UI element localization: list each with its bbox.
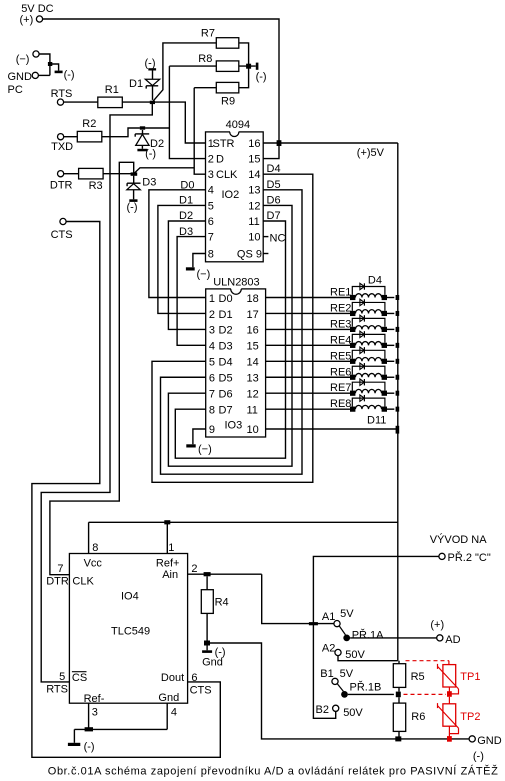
wire net D4: 4094 pin14 wrap to ULN pin5	[152, 174, 313, 482]
4094 pin10 NC stub	[263, 236, 268, 238]
terminal GND	[469, 736, 475, 742]
wire net D7: 4094 pin11 wrap to ULN pin8	[175, 221, 285, 458]
svg-text:Gnd: Gnd	[158, 692, 179, 704]
svg-text:R4: R4	[215, 597, 229, 609]
wire net D2: 4094 pin6 to ULN pin3	[168, 221, 205, 329]
svg-text:PŘ.1A: PŘ.1A	[352, 629, 384, 642]
svg-text:Ref+: Ref+	[156, 557, 180, 569]
TLC549 pin8 Vcc stub	[88, 522, 90, 553]
flyback diode D8	[352, 350, 385, 358]
svg-text:D3: D3	[179, 226, 193, 238]
svg-text:AD: AD	[445, 634, 460, 646]
svg-text:(-): (-)	[84, 741, 95, 753]
svg-text:D: D	[216, 154, 224, 166]
svg-text:IO2: IO2	[222, 189, 240, 201]
svg-text:Dout: Dout	[161, 672, 184, 684]
diode D1 (zener)	[152, 86, 154, 100]
svg-text:(−): (−)	[197, 269, 211, 281]
ground Gnd at R4	[206, 646, 208, 651]
wire pin3-pin4 ground link	[74, 728, 167, 730]
node R7/R8/R9 (-) junction	[246, 64, 251, 69]
svg-text:1: 1	[168, 542, 174, 554]
node RTS/D1 junction	[150, 101, 155, 104]
node A1 junction	[309, 622, 318, 625]
terminal (-) PC	[33, 51, 39, 57]
wire 5VDC to 4094 pin16 junction	[43, 19, 279, 141]
svg-text:D1: D1	[219, 309, 233, 321]
svg-text:RE1: RE1	[330, 287, 351, 299]
4094 pin8 ground wire	[193, 254, 206, 268]
wire R9 left	[194, 87, 216, 89]
svg-text:DTR: DTR	[50, 180, 73, 192]
wire R2 jog up to D2 node	[102, 128, 140, 137]
svg-text:R5: R5	[411, 671, 425, 683]
svg-text:18: 18	[247, 293, 259, 305]
svg-text:CS: CS	[72, 672, 87, 684]
node Ain/R4 junction	[204, 572, 211, 576]
svg-text:4094: 4094	[226, 119, 250, 131]
svg-text:(+)5V: (+)5V	[357, 147, 385, 159]
wire R8 vertical to 4094 pin2	[169, 66, 205, 159]
svg-text:B2: B2	[316, 704, 329, 716]
wire A2 to R5 top	[338, 656, 398, 661]
wire node diagonal to R7	[152, 43, 216, 102]
svg-text:(-): (-)	[127, 202, 138, 214]
node 4094 pin16 5V junction	[277, 140, 282, 146]
svg-text:RE2: RE2	[330, 302, 351, 314]
node TP1/TP2 red junction	[447, 691, 452, 697]
svg-text:TLC549: TLC549	[111, 625, 150, 637]
svg-text:5V: 5V	[340, 608, 354, 620]
node R5 top	[398, 661, 400, 664]
wire 4094 pin15 up to pin16 node	[263, 143, 279, 159]
switch contact B2	[333, 705, 339, 711]
svg-text:Ain: Ain	[162, 569, 178, 581]
diode D2 (zener)	[142, 130, 144, 134]
svg-text:5V: 5V	[340, 668, 354, 680]
svg-text:15: 15	[247, 341, 259, 353]
svg-text:1: 1	[209, 293, 215, 305]
wire ULN pin 18 to relay RE1	[266, 297, 350, 299]
svg-text:RE4: RE4	[330, 334, 351, 346]
wire junction to A1 contact	[317, 623, 333, 625]
svg-text:2: 2	[209, 309, 215, 321]
svg-text:50V: 50V	[345, 649, 365, 661]
terminal +5V DC	[36, 16, 42, 22]
svg-text:TP1: TP1	[460, 671, 480, 683]
svg-text:5: 5	[59, 671, 65, 683]
switch contact A2	[335, 649, 341, 655]
wire Ref+ net to +5V rail	[89, 521, 398, 523]
wire TXD to R2	[64, 136, 78, 138]
svg-text:(+): (+)	[20, 14, 34, 26]
flyback diode D10	[352, 382, 385, 390]
wire node to 4094 pin1	[152, 102, 205, 143]
node RE1 on +5V rail	[396, 295, 400, 300]
flyback diode D7	[352, 334, 385, 342]
TLC549 pin1 Ref+ stub	[166, 522, 168, 553]
svg-text:RTS: RTS	[51, 88, 73, 100]
svg-text:B1: B1	[320, 668, 333, 680]
wire R7 right to (-) node	[239, 43, 249, 66]
svg-text:D5: D5	[219, 373, 233, 385]
wire D3 node up-over to DTR vertical	[50, 162, 134, 574]
svg-text:D11: D11	[367, 414, 386, 426]
svg-text:2: 2	[208, 154, 214, 166]
svg-text:5: 5	[209, 357, 215, 369]
svg-text:3: 3	[92, 707, 98, 719]
terminal TXD	[58, 134, 64, 140]
svg-text:GND: GND	[8, 71, 33, 83]
svg-text:8: 8	[92, 542, 98, 554]
svg-text:14: 14	[248, 169, 260, 181]
wire ULN pin 11 to relay RE8	[266, 408, 350, 410]
resistor R9	[216, 82, 239, 93]
svg-text:6: 6	[191, 672, 197, 684]
wire R8 left	[169, 65, 216, 67]
svg-text:RE7: RE7	[330, 382, 351, 394]
svg-text:D0: D0	[219, 293, 233, 305]
red dashed wire to TP1 top	[406, 660, 450, 662]
resistor R7	[216, 38, 239, 49]
svg-text:VÝVOD NA: VÝVOD NA	[430, 533, 488, 546]
IC U3 ULN2803 driver IO3	[206, 289, 266, 437]
svg-text:Obr.č.01A schéma zapojení přev: Obr.č.01A schéma zapojení převodníku A/D…	[48, 764, 498, 777]
ground (-) at TLC549	[73, 729, 75, 742]
svg-text:9: 9	[209, 424, 215, 436]
node RE3 on +5V rail	[396, 327, 400, 332]
switch contact B1	[332, 678, 338, 684]
svg-text:CLK: CLK	[216, 169, 238, 181]
svg-text:ULN2803: ULN2803	[213, 277, 259, 289]
svg-text:DTR: DTR	[46, 576, 69, 588]
svg-text:GND: GND	[477, 735, 502, 747]
svg-text:(−): (−)	[16, 54, 30, 66]
wire R3 to D3 node	[103, 173, 134, 175]
resistor R5	[393, 664, 405, 688]
resistor R1	[98, 97, 123, 108]
svg-text:D3: D3	[219, 341, 233, 353]
svg-text:(-): (-)	[473, 750, 484, 762]
svg-text:R8: R8	[198, 53, 212, 65]
wire RTS to R1	[64, 101, 98, 103]
svg-text:Ref-: Ref-	[84, 693, 105, 705]
red wire TP2 bottom	[448, 726, 450, 739]
op: IC U2 4094 shift register IO2	[206, 132, 264, 262]
resistor R4	[206, 576, 208, 589]
flyback diode D6	[352, 318, 385, 326]
wire VYVOD NA PR.2 C	[313, 556, 439, 718]
svg-text:PŘ.1B: PŘ.1B	[350, 681, 382, 694]
diode D3 (zener)	[133, 176, 135, 184]
node DTR/D3 junction	[131, 172, 138, 175]
svg-text:RE8: RE8	[330, 398, 351, 410]
wire net D1: 4094 pin5 to ULN pin2	[158, 205, 206, 313]
svg-text:(-): (-)	[145, 148, 156, 160]
svg-text:D4: D4	[368, 274, 382, 286]
wire pole A to AD terminal	[350, 637, 437, 639]
resistor R3	[79, 168, 104, 179]
flyback diode D11	[352, 398, 385, 406]
svg-text:3: 3	[208, 169, 214, 181]
wire CTS wrap to TLC549 pin6 Dout	[32, 222, 220, 758]
wire net D0: 4094 pin4 to ULN pin1	[149, 190, 206, 298]
svg-text:(−): (−)	[198, 443, 212, 455]
svg-text:10: 10	[248, 232, 260, 244]
svg-text:D1: D1	[179, 195, 193, 207]
resistor R2	[77, 131, 102, 142]
svg-text:R7: R7	[201, 27, 215, 39]
svg-text:4: 4	[208, 185, 214, 197]
svg-text:CLK: CLK	[72, 576, 94, 588]
svg-text:14: 14	[247, 357, 259, 369]
TLC549 pin2 Ain wire	[188, 573, 262, 575]
svg-text:IO4: IO4	[121, 591, 139, 603]
wire 4094 pin16 to +5V rail	[263, 142, 398, 144]
terminal AD	[437, 635, 443, 641]
svg-text:D2: D2	[179, 210, 193, 222]
wire ULN pin 14 to relay RE5	[266, 360, 350, 362]
svg-text:(-): (-)	[256, 71, 267, 83]
svg-text:7: 7	[208, 232, 214, 244]
svg-text:Vcc: Vcc	[84, 557, 103, 569]
svg-text:9: 9	[256, 248, 262, 260]
svg-text:D5: D5	[267, 179, 281, 191]
terminal DTR	[58, 171, 64, 177]
ground (-) at 4094 pin8	[186, 267, 195, 270]
svg-text:D6: D6	[219, 389, 233, 401]
node pin10 on rail	[396, 426, 400, 434]
svg-text:R2: R2	[82, 118, 96, 130]
svg-text:D7: D7	[267, 210, 281, 222]
svg-text:PC: PC	[8, 84, 23, 96]
svg-text:7: 7	[209, 389, 215, 401]
svg-text:D4: D4	[219, 357, 233, 369]
svg-text:12: 12	[247, 389, 259, 401]
svg-text:D2: D2	[219, 325, 233, 337]
svg-text:R3: R3	[89, 180, 103, 192]
svg-text:PŘ.2 "C": PŘ.2 "C"	[448, 551, 491, 564]
svg-text:3: 3	[209, 325, 215, 337]
thermistor TP1	[443, 665, 456, 687]
svg-text:STR: STR	[213, 138, 235, 150]
thermistor TP2	[448, 697, 450, 704]
svg-text:D6: D6	[267, 194, 281, 206]
terminal CTS	[60, 218, 66, 224]
wire D3 node diagonal to pin3 via R9 vertical	[134, 168, 195, 174]
wire net D6: 4094 pin12 wrap to ULN pin7	[168, 205, 292, 466]
wire R4 ground to GND line	[210, 643, 469, 739]
svg-text:D1: D1	[129, 78, 143, 90]
wire R9 right up to node	[239, 66, 249, 88]
wire DTR to R3	[64, 173, 79, 175]
node TLC ground junction	[85, 727, 93, 731]
svg-text:15: 15	[248, 154, 260, 166]
svg-text:CTS: CTS	[51, 229, 73, 241]
wire net D3: 4094 pin7 to ULN pin4	[177, 237, 206, 346]
svg-text:A1: A1	[322, 611, 335, 623]
svg-text:TXD: TXD	[51, 141, 73, 153]
svg-text:2: 2	[191, 563, 197, 575]
terminal RTS	[57, 99, 63, 105]
svg-text:R9: R9	[221, 96, 235, 108]
svg-text:NC: NC	[270, 233, 286, 245]
svg-text:8: 8	[209, 404, 215, 416]
wire Ain to A1 junction	[262, 574, 314, 623]
flyback diode D5	[352, 302, 385, 310]
node RE5 on +5V rail	[396, 359, 400, 364]
wire R9 vertical to 4094 pin3	[194, 88, 205, 175]
svg-text:12: 12	[248, 200, 260, 212]
svg-text:5: 5	[208, 200, 214, 212]
node TP2 on GND line	[447, 736, 452, 742]
node RE2 on +5V rail	[396, 311, 400, 316]
svg-text:IO3: IO3	[225, 420, 243, 432]
switch contact A1	[334, 621, 340, 627]
svg-text:RE3: RE3	[330, 318, 351, 330]
svg-text:D4: D4	[267, 163, 281, 175]
svg-text:RE6: RE6	[330, 366, 351, 378]
svg-text:7: 7	[57, 563, 63, 575]
svg-text:D7: D7	[219, 404, 233, 416]
svg-text:13: 13	[247, 373, 259, 385]
wire ULN pin 12 to relay RE7	[266, 392, 350, 394]
svg-text:11: 11	[248, 216, 259, 228]
ground (-) at ULN pin9	[186, 444, 195, 447]
node RE6 on +5V rail	[396, 375, 400, 380]
svg-text:RTS: RTS	[46, 684, 68, 696]
IC U4 TLC549 ADC IO4	[69, 554, 187, 704]
svg-text:R6: R6	[411, 711, 425, 723]
switch pole PR.1A	[339, 626, 345, 635]
node Ref+ junction	[164, 520, 170, 524]
wire ULN pin 16 to relay RE3	[266, 328, 350, 330]
svg-text:CTS: CTS	[190, 684, 212, 696]
svg-text:11: 11	[247, 404, 258, 416]
wire ULN pin 15 to relay RE4	[266, 344, 350, 346]
wire GND to vertical	[39, 74, 50, 76]
node R5/R6 divider junction	[396, 692, 401, 698]
wire pole B to R5/R6 junction	[348, 693, 394, 695]
4094 pin9 QS stub	[263, 253, 268, 255]
chassis ground symbol PC	[50, 64, 59, 71]
svg-text:R1: R1	[105, 84, 119, 96]
wire node to R8 vertical	[145, 127, 169, 129]
wire RTS node down-jog to left vertical	[41, 102, 152, 682]
svg-text:4: 4	[171, 707, 177, 719]
wire (-) to GND vertical	[39, 54, 50, 75]
svg-text:10: 10	[247, 424, 259, 436]
svg-text:TP2: TP2	[460, 711, 480, 723]
resistor R6	[393, 703, 405, 731]
flyback diode D9	[352, 366, 385, 374]
node RE4 on +5V rail	[396, 343, 400, 348]
svg-text:QS: QS	[237, 248, 253, 260]
svg-text:(-): (-)	[64, 69, 75, 81]
red dashed wire to TP1/TP2 junction	[404, 693, 447, 695]
svg-text:16: 16	[248, 138, 260, 150]
red wire TP1 bottom	[448, 687, 450, 694]
svg-text:D0: D0	[180, 179, 194, 191]
svg-text:4: 4	[209, 341, 215, 353]
svg-text:D3: D3	[142, 177, 156, 189]
svg-text:6: 6	[208, 216, 214, 228]
svg-text:(+): (+)	[430, 619, 444, 631]
svg-text:RE5: RE5	[330, 350, 351, 362]
wire ULN pin10 COM to +5V rail	[266, 428, 398, 430]
flyback diode D4	[352, 287, 385, 295]
terminal (-) bar	[256, 63, 259, 70]
terminal PR.2 C	[439, 553, 445, 559]
wire R1 to node	[122, 101, 152, 103]
node RE7 on +5V rail	[396, 391, 400, 396]
wire ULN pin 13 to relay RE6	[266, 376, 350, 378]
svg-text:6: 6	[209, 373, 215, 385]
wire ULN pin 17 to relay RE2	[266, 312, 350, 314]
svg-text:16: 16	[247, 325, 259, 337]
svg-text:8: 8	[208, 248, 214, 260]
node TXD/D2 junction	[140, 126, 145, 129]
+5V rail vertical	[397, 143, 399, 661]
svg-text:13: 13	[248, 185, 260, 197]
wire R8 right	[239, 65, 256, 67]
node PC ground junction	[48, 62, 52, 66]
svg-text:A2: A2	[322, 642, 335, 654]
node R4 bottom junction	[204, 641, 210, 646]
svg-text:50V: 50V	[343, 707, 363, 719]
terminal GND PC	[32, 72, 38, 78]
ULN2803 pin9 ground wire	[193, 429, 206, 444]
switch pole PR.1B	[337, 684, 343, 692]
resistor R8	[216, 61, 239, 72]
node RE8 on +5V rail	[396, 407, 400, 412]
node R6 bottom on GND line	[398, 731, 400, 739]
wire net D5: 4094 pin13 wrap to ULN pin6	[161, 190, 303, 474]
svg-text:(-): (-)	[145, 57, 156, 69]
svg-text:Gnd: Gnd	[202, 657, 223, 669]
svg-text:17: 17	[247, 309, 259, 321]
